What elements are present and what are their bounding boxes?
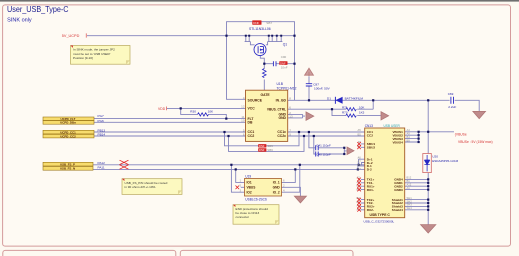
wire C90 row xyxy=(264,63,294,65)
svg-text:IN_GD: IN_GD xyxy=(276,99,287,103)
svg-text:PB14: PB14 xyxy=(98,133,106,137)
wire TX RX stubs xyxy=(361,179,365,209)
wire D+ bus xyxy=(93,164,365,166)
svg-text:B4: B4 xyxy=(407,135,411,139)
pin numbers U1B xyxy=(241,96,245,137)
wire U20 to gnd vertical xyxy=(427,173,429,225)
port USB_FS_P xyxy=(43,162,93,166)
wire 5V_UCPD main horizontal xyxy=(87,35,295,37)
svg-text:R71: R71 xyxy=(342,106,348,110)
wire VBUS2-4 rows xyxy=(405,132,419,142)
svg-text:User_USB_Type-C: User_USB_Type-C xyxy=(7,5,69,14)
note2 usb fs routing xyxy=(122,179,182,195)
wire GND rows xyxy=(405,179,429,189)
svg-text:110pF: 110pF xyxy=(323,143,331,147)
wire Shield rows xyxy=(405,200,429,210)
svg-text:{VBUSe: {VBUSe xyxy=(455,132,467,136)
svg-text:IO_1: IO_1 xyxy=(273,181,280,185)
svg-text:BAT74KFILM: BAT74KFILM xyxy=(345,96,364,100)
svg-text:VBUSe : 5V (15W max): VBUSe : 5V (15W max) xyxy=(458,140,493,144)
wire U19 unconnected stub xyxy=(241,186,245,188)
svg-text:SOURCE: SOURCE xyxy=(248,99,263,103)
wire U19 right ups xyxy=(282,165,300,192)
wire D- bus xyxy=(93,168,358,170)
wire C87 branch xyxy=(308,86,310,100)
svg-text:U1B: U1B xyxy=(277,82,284,86)
svg-text:C90: C90 xyxy=(281,55,287,59)
svg-text:U19: U19 xyxy=(245,175,251,179)
svg-text:B5: B5 xyxy=(358,132,362,136)
wire GND pins join xyxy=(288,114,305,118)
svg-text:PG6: PG6 xyxy=(98,119,104,123)
svg-text:Q1: Q1 xyxy=(283,43,288,47)
svg-text:10K: 10K xyxy=(359,106,364,110)
wire D-2 stub xyxy=(358,168,365,170)
wire cap join to gnd arrow xyxy=(344,148,347,154)
svg-text:R70: R70 xyxy=(342,111,348,115)
svg-text:10nF: 10nF xyxy=(281,65,288,69)
svg-text:U20: U20 xyxy=(432,154,438,158)
svg-text:SH1: SH1 xyxy=(407,196,413,200)
svg-text:GND: GND xyxy=(273,186,281,190)
svg-text:A4: A4 xyxy=(407,128,411,132)
wire source drop to pin4 SOURCE xyxy=(227,36,246,100)
wire DB xyxy=(94,121,246,123)
svg-text:CC2c: CC2c xyxy=(277,134,286,138)
svg-text:TCPP01-M12: TCPP01-M12 xyxy=(277,86,297,90)
X marks on unused connector pins xyxy=(357,142,361,212)
svg-text:RX1-: RX1- xyxy=(367,188,374,192)
note3 esd protections xyxy=(233,205,279,225)
wire drain drop to IN_GD xyxy=(294,36,296,101)
ground right of C69 xyxy=(473,111,486,118)
port UCPD_CC2 xyxy=(43,134,94,138)
svg-text:1K5: 1K5 xyxy=(359,111,365,115)
svg-text:PA11: PA11 xyxy=(98,165,105,169)
wire VBUS_CTRL row R71 xyxy=(288,100,374,109)
svg-text:IO_2: IO_2 xyxy=(273,190,280,194)
power arrow VBUS up above C87 xyxy=(305,68,314,76)
connector CN13 USB Type-C xyxy=(365,128,405,218)
svg-text:D-2: D-2 xyxy=(367,168,372,172)
wire C41 branch xyxy=(309,132,344,148)
DNF label SB7 top xyxy=(252,20,261,24)
svg-text:Shield4: Shield4 xyxy=(392,208,403,212)
svg-text:DNF: DNF xyxy=(280,61,286,65)
svg-text:A12: A12 xyxy=(407,183,412,187)
svg-text:GATE: GATE xyxy=(261,93,271,97)
DNF label SB row1 xyxy=(258,144,266,147)
power arrow right R70 xyxy=(381,112,389,120)
svg-text:USB USER: USB USER xyxy=(384,124,401,128)
svg-text:R30: R30 xyxy=(190,109,196,113)
wire VDD to VCC pin12 xyxy=(167,107,246,109)
svg-text:RX2-: RX2- xyxy=(367,208,374,212)
svg-text:100nF, 50V: 100nF, 50V xyxy=(314,87,331,91)
svg-text:SB7: SB7 xyxy=(266,21,272,25)
svg-text:CC2: CC2 xyxy=(367,134,373,138)
port UCPD_CC1 xyxy=(43,130,94,134)
wire Q1 pads xyxy=(245,36,255,45)
svg-text:B7: B7 xyxy=(358,167,362,171)
wire CC1 xyxy=(94,131,246,133)
svg-text:PG7: PG7 xyxy=(98,114,104,118)
svg-text:C40: C40 xyxy=(316,153,322,157)
pin name labels xyxy=(98,114,106,169)
wire R70 row xyxy=(332,109,381,115)
capacitor C69 xyxy=(451,97,454,104)
svg-text:D1: D1 xyxy=(327,96,331,100)
svg-text:STL11N3LL06: STL11N3LL06 xyxy=(249,27,271,31)
svg-text:UCPD_CC2: UCPD_CC2 xyxy=(60,134,76,138)
svg-text:SB6: SB6 xyxy=(267,148,273,152)
wire U19 gnd xyxy=(282,187,301,196)
svg-text:IO2: IO2 xyxy=(247,190,252,194)
svg-text:A1: A1 xyxy=(407,186,411,190)
diff pair marks xyxy=(120,160,129,169)
DNF label SB row2 xyxy=(258,148,266,151)
X no-connect U19 VBUS xyxy=(236,186,240,190)
connector pin designators xyxy=(357,128,413,212)
svg-text:VBUS4: VBUS4 xyxy=(392,140,403,144)
note1 sink mode xyxy=(71,46,131,65)
port UCPD_DBn xyxy=(43,121,94,125)
svg-text:B12: B12 xyxy=(407,176,412,180)
svg-text:UCPD_DBn: UCPD_DBn xyxy=(60,121,76,125)
wire R30 branch xyxy=(181,108,227,118)
DNF label C90 xyxy=(279,61,287,65)
svg-text:SH3: SH3 xyxy=(407,203,413,207)
svg-text:A6: A6 xyxy=(358,156,362,160)
svg-text:SBU2: SBU2 xyxy=(367,146,376,150)
svg-text:connector: connector xyxy=(236,215,250,219)
svg-text:GND3: GND3 xyxy=(394,188,403,192)
wire VBUS1 row to label xyxy=(405,131,454,133)
wire C69 right to gnd xyxy=(455,100,480,111)
wire SB bridge row2 xyxy=(229,136,305,151)
svg-text:C41: C41 xyxy=(316,143,322,147)
svg-text:GND: GND xyxy=(278,116,286,120)
svg-text:Position [9-10]: Position [9-10] xyxy=(73,56,93,60)
svg-text:C69: C69 xyxy=(448,92,454,96)
svg-text:CN13: CN13 xyxy=(365,124,373,128)
gnd arrow right for C41 C40 xyxy=(347,147,354,155)
svg-text:USBLC6-2SC6: USBLC6-2SC6 xyxy=(245,197,267,201)
svg-text:2.2uF: 2.2uF xyxy=(448,105,456,109)
resistor R70 xyxy=(346,114,357,117)
svg-text:SINK only: SINK only xyxy=(7,18,32,24)
port USB_FS_N xyxy=(43,167,93,171)
capacitor C87 xyxy=(306,84,312,86)
wire CC2c to connector xyxy=(288,135,365,137)
svg-text:13: 13 xyxy=(289,114,293,118)
svg-text:USB_FS_N: USB_FS_N xyxy=(60,167,75,171)
svg-text:DNF: DNF xyxy=(259,148,265,152)
capacitor C90 DNF plates xyxy=(273,61,276,66)
wire CC2 xyxy=(94,135,246,137)
svg-text:ESDA25P35-1U1M: ESDA25P35-1U1M xyxy=(432,159,458,163)
bottom section box right xyxy=(180,250,353,256)
svg-text:B1: B1 xyxy=(407,179,411,183)
wire C40 branch xyxy=(314,136,345,154)
svg-text:CC2: CC2 xyxy=(248,134,255,138)
wire D+1 jog xyxy=(359,159,365,165)
svg-text:DNF: DNF xyxy=(259,144,265,148)
svg-text:A5: A5 xyxy=(358,128,362,132)
svg-text:110pF: 110pF xyxy=(323,153,331,157)
svg-text:10K: 10K xyxy=(208,109,214,113)
svg-text:VCC: VCC xyxy=(248,107,256,111)
svg-text:DNF: DNF xyxy=(253,21,259,25)
resistor on gate xyxy=(263,69,267,78)
top window edge bar xyxy=(0,0,519,2)
wire SB bridge row1 xyxy=(225,132,300,146)
svg-text:VBUS: VBUS xyxy=(247,186,256,190)
ground U19 xyxy=(294,196,306,203)
wire VBUS vertical to U20 xyxy=(427,100,429,153)
svg-text:USB_C_G327230000L: USB_C_G327230000L xyxy=(364,219,395,223)
svg-text:in 90 ohms diff +/-10%.: in 90 ohms diff +/-10%. xyxy=(125,185,157,189)
svg-text:A9: A9 xyxy=(407,132,411,136)
svg-text:USB TYPE C: USB TYPE C xyxy=(370,213,391,217)
op-amp U1B TCPP01-M12 body xyxy=(246,90,288,141)
wire U19 left drops xyxy=(231,165,244,192)
wire gate vertical xyxy=(260,56,264,91)
wire D+2 jog xyxy=(362,163,365,165)
capacitor C41 xyxy=(316,145,319,150)
svg-text:10: 10 xyxy=(241,119,245,123)
svg-text:DB: DB xyxy=(248,121,253,125)
svg-text:VBUS_CTRL: VBUS_CTRL xyxy=(267,107,286,111)
svg-text:SH4: SH4 xyxy=(407,206,413,210)
port UCPD_FLT xyxy=(43,117,94,121)
wire VBUS line to C69 xyxy=(288,99,450,101)
svg-text:VDD: VDD xyxy=(158,107,166,111)
svg-text:SH2: SH2 xyxy=(407,199,413,203)
svg-text:5V_UCPD: 5V_UCPD xyxy=(62,34,80,38)
svg-text:12: 12 xyxy=(241,105,245,109)
wire SB7 bypass loop xyxy=(227,22,295,36)
wire SBU stubs xyxy=(361,144,365,147)
IC U19 USBLC6-2SC6 xyxy=(245,179,282,197)
resistor R30 xyxy=(198,113,209,116)
wire CC1c to connector xyxy=(288,131,365,133)
diode D1 BAT74KFILM xyxy=(334,97,336,104)
gnd arrow right pins 2 13 xyxy=(306,112,314,120)
wire D-1 jog xyxy=(358,166,365,170)
capacitor C40 xyxy=(316,152,319,157)
svg-text:IO1: IO1 xyxy=(247,181,252,185)
bottom section box left xyxy=(3,250,176,256)
resistor R71 xyxy=(346,108,357,111)
svg-text:B9: B9 xyxy=(407,138,411,142)
svg-text:B6: B6 xyxy=(358,163,362,167)
diode U20 ESDA25P35-1U1M xyxy=(423,154,432,173)
wire FLT xyxy=(94,118,246,120)
ground big bottom xyxy=(421,225,436,233)
